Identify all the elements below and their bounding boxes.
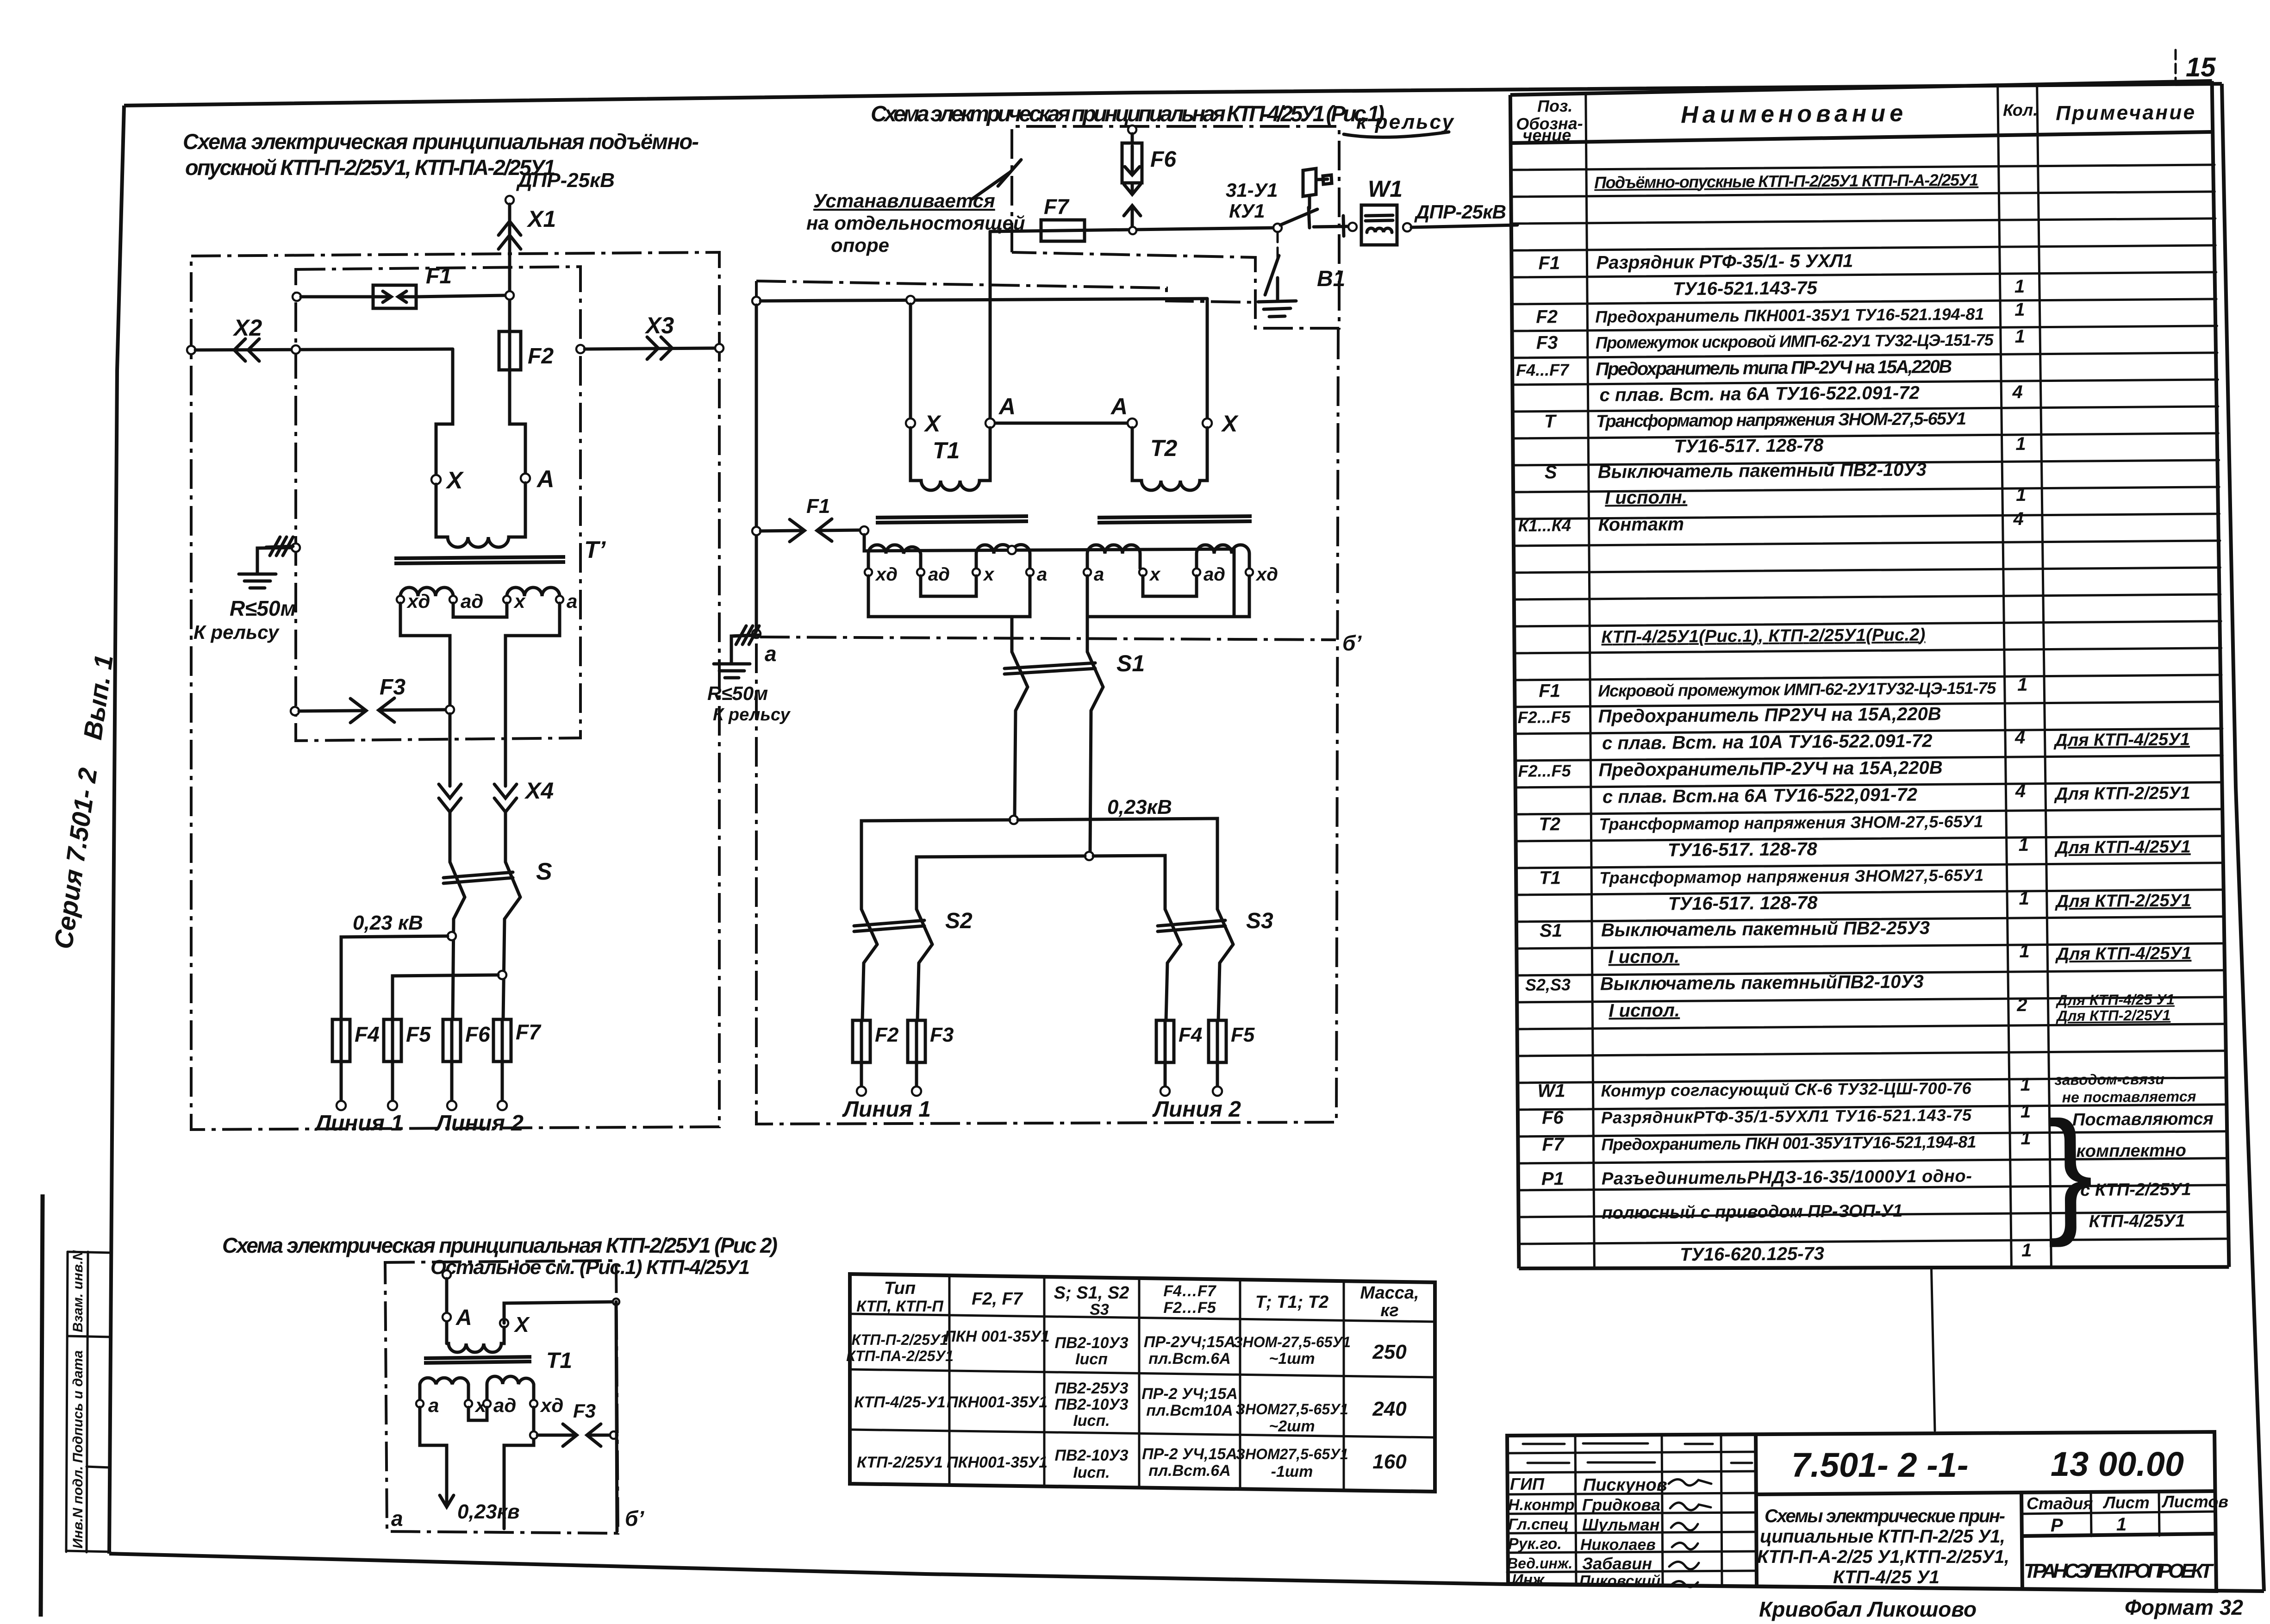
wire tap2 mid [917,856,1085,909]
wire F6 tail [450,1062,454,1100]
svg-text:S2,S3: S2,S3 [1525,975,1571,994]
svg-text:4: 4 [2014,727,2026,748]
svg-text:кг: кг [1380,1301,1399,1320]
stadia header verticals [2091,1493,2091,1536]
svg-text:к рельсу: к рельсу [1356,111,1455,133]
svg-text:Трансформатор напряжения ЗНОМ2: Трансформатор напряжения ЗНОМ27,5-65У1 [1599,866,1983,887]
T2 stair bar and stem [1087,576,1249,617]
svg-text:Схемы электрические прин-: Схемы электрические прин- [1765,1506,2005,1526]
fuse F2 [499,331,521,370]
wire F4 tail [340,1062,343,1100]
LEFTSCH [183,129,723,1136]
svg-text:чение: чение [1522,125,1571,145]
svg-text:Формат 32: Формат 32 [2125,1595,2243,1619]
node A top [443,1270,451,1279]
svg-text:КТП-2/25У1: КТП-2/25У1 [857,1454,943,1471]
node sec а [556,596,563,603]
node F1 right [860,526,868,535]
MIDSCH [707,102,1517,1124]
wire b-side vertical [616,1302,617,1531]
scan edge streak [41,1194,43,1617]
svg-text:1: 1 [2016,485,2027,505]
svg-text:ПР-2УЧ;15А: ПР-2УЧ;15А [1144,1333,1235,1351]
svg-text:Взам. инв.N: Взам. инв.N [70,1250,86,1332]
svg-text:2: 2 [2016,995,2027,1015]
wire X1 vertical [508,204,511,331]
connector X1 chevrons [499,221,521,235]
svg-text:A: A [536,466,555,493]
svg-text:F4…F7: F4…F7 [1163,1282,1216,1300]
wire HV feed down to T1 A [989,231,992,419]
svg-text:7.501- 2 -1-: 7.501- 2 -1- [1791,1446,1969,1484]
svg-text:Т; Т1; Т2: Т; Т1; Т2 [1255,1293,1328,1312]
T1 sec node а [1026,568,1034,576]
mass table row2 bottom [850,1430,1435,1437]
svg-text:КТП-П-А-2/25 У1,КТП-2/25У1,: КТП-П-А-2/25 У1,КТП-2/25У1, [1757,1547,2009,1567]
svg-text:W1: W1 [1368,176,1403,202]
node tap2 [498,971,506,979]
svg-text:КУ1: КУ1 [1229,200,1265,222]
transformer T1 core fig2 [424,1357,531,1358]
svg-text:Т2: Т2 [1150,435,1178,461]
T2 sec node хд [1246,568,1253,576]
MASSTABLE [846,1274,1435,1492]
node W1 right [1403,223,1411,231]
svg-text:Лист: Лист [2102,1493,2150,1512]
svg-text:х: х [1149,564,1161,585]
connector X4 chevron right line [494,784,517,798]
wire F7 tail [501,1062,504,1100]
svg-text:0,23кВ: 0,23кВ [1107,796,1172,818]
ground wire [257,548,292,573]
svg-text:X1: X1 [526,206,556,232]
svg-text:ПР-2 УЧ,15А: ПР-2 УЧ,15А [1142,1445,1237,1463]
wire S1 right pole down [1090,687,1103,852]
svg-text:4: 4 [2012,382,2023,402]
parts table outer verticals [1510,95,1519,1268]
fuse F7 [1041,220,1085,241]
svg-text:1: 1 [2014,276,2025,297]
node T1 A fig2 [443,1313,451,1321]
svg-text:КТП-ПА-2/25У1: КТП-ПА-2/25У1 [846,1348,954,1364]
svg-text:РазрядникРТФ-35/1-5УХЛ1 ТУ16-: РазрядникРТФ-35/1-5УХЛ1 ТУ16-521.143-75 [1601,1106,1972,1127]
node W1 left [1348,223,1357,231]
svg-text:S3: S3 [1090,1301,1109,1318]
svg-text:ад: ад [1204,564,1225,585]
node sec ад [449,596,457,603]
transformer T1 primary fig2 [447,1327,504,1352]
mass table frame [850,1274,1435,1492]
node sec х [503,596,511,603]
node X1 top [505,196,514,204]
enclosure box inner (dash-dot) [296,267,580,741]
ground symbol [239,574,276,588]
svg-text:Стадия: Стадия [2027,1494,2093,1513]
svg-text:Трансформатор напряжения ЗНОМ-: Трансформатор напряжения ЗНОМ-27,5-65У1 [1599,812,1983,834]
T1 secondary coil right [976,545,1030,569]
earth wire [731,635,753,663]
svg-text:ПКН 001-35У1: ПКН 001-35У1 [944,1328,1049,1345]
transformer T primary winding [436,483,525,547]
svg-text:Пискунов: Пискунов [1583,1475,1667,1495]
margin stamp cell lines [68,1252,111,1253]
svg-text:Предохранитель ПКН001-35У1 ТУ1: Предохранитель ПКН001-35У1 ТУ16-521.194-… [1595,305,1984,326]
PARTSTABLE [1510,81,2230,1434]
svg-text:с плав. Вст. на 10А ТУ16-522.0: с плав. Вст. на 10А ТУ16-522.091-72 [1602,731,1933,753]
svg-text:F7: F7 [516,1020,542,1044]
switch S1 bar [1004,663,1095,668]
svg-text:КТП-П-2/25У1: КТП-П-2/25У1 [852,1331,948,1348]
svg-text:160: 160 [1372,1450,1407,1473]
svg-text:опускной КТП-П-2/25У1, КТП-ПА: опускной КТП-П-2/25У1, КТП-ПА-2/25У1 [185,155,555,180]
parts table row rules [1511,165,2228,1244]
parts table bottom edge [1519,1263,2229,1272]
svg-text:х: х [983,564,995,585]
svg-text:Выключатель пакетный ПВ2-10У: Выключатель пакетный ПВ2-10У3 [1598,459,1927,482]
wire to W1 contact [1314,216,1348,236]
svg-text:хд: хд [540,1394,563,1416]
svg-text:1: 1 [2019,941,2030,962]
svg-text:бʼ: бʼ [1342,631,1362,655]
wire bus right riser [1233,549,1236,617]
wire return riser [755,305,758,634]
svg-text:Р: Р [2051,1515,2063,1536]
switch S1 blades [1012,652,1028,687]
wire X3 line [585,348,715,349]
wire S left pole down [453,897,465,1019]
svg-text:К1...К4: К1...К4 [1518,516,1571,535]
svg-text:R≤50м: R≤50м [707,682,768,704]
node F6 top [1128,125,1136,134]
node F3 right [446,706,454,714]
svg-text:I испол.: I испол. [1608,946,1679,967]
wire tap2 to F5 [393,975,498,1019]
svg-text:Для КТП-2/25У1: Для КТП-2/25У1 [2054,783,2190,804]
title block verticals left part [1575,1435,1576,1584]
svg-text:Разрядник РТФ-35/1- 5 УХЛ1: Разрядник РТФ-35/1- 5 УХЛ1 [1596,251,1853,273]
svg-text:1: 1 [2019,888,2029,909]
svg-text:Т1: Т1 [546,1349,572,1373]
stadia bottom line [2021,1534,2215,1536]
earth bars [714,664,750,678]
wire left stem below F3 [449,714,452,786]
svg-text:Николаев: Николаев [1580,1536,1656,1554]
svg-text:F4: F4 [1179,1024,1202,1046]
svg-text:ТУ16-620.125-73: ТУ16-620.125-73 [1680,1243,1824,1265]
svg-text:Iисп: Iисп [1075,1350,1108,1368]
spark gap F3 [299,711,365,711]
wire X2 line [195,349,453,350]
T2 secondary coil right [1197,545,1249,568]
svg-text:ДПР-25кВ: ДПР-25кВ [1414,201,1506,223]
wire T primary left lead [436,349,453,475]
node T1 X [906,418,915,428]
svg-text:Tʼ: Tʼ [584,537,606,563]
svg-text:опоре: опоре [831,234,889,256]
node X lead corner [613,1299,619,1305]
svg-text:13 00.00: 13 00.00 [2051,1445,2184,1483]
svg-text:Рук.го.: Рук.го. [1508,1535,1562,1553]
svg-text:ТУ16-517. 128-78: ТУ16-517. 128-78 [1668,839,1818,860]
node F1 left [752,527,761,535]
switch S bar [443,872,513,878]
svg-text:S1: S1 [1540,920,1562,941]
T2 mid bridge [1143,576,1197,596]
ground node on inner box [292,543,300,552]
svg-text:Т1: Т1 [933,437,960,463]
svg-text:с КТП-2/25У1: с КТП-2/25У1 [2080,1180,2191,1200]
svg-text:F4...F7: F4...F7 [1516,360,1570,380]
sheet top border [124,84,2222,106]
wire HV return bus [761,299,1207,301]
svg-text:Для КТП-2/25У1: Для КТП-2/25У1 [2054,891,2191,911]
svg-text:К рельсу: К рельсу [193,621,280,643]
svg-text:Контур согласующий СК-6 ТУ32-Ц: Контур согласующий СК-6 ТУ32-ЦШ-700-76 [1601,1079,1971,1100]
svg-text:пл.Вст.6А: пл.Вст.6А [1148,1350,1231,1368]
svg-text:Подпись и дата: Подпись и дата [70,1350,86,1463]
svg-text:ГИП: ГИП [1510,1474,1545,1493]
mid bridge fig2 [468,1407,487,1420]
terminal Линия1 a [337,1101,346,1110]
svg-text:Подъёмно-опускные КТП-П-2/25У1: Подъёмно-опускные КТП-П-2/25У1 КТП-П-А-2… [1594,170,1978,192]
svg-text:ад: ад [493,1394,516,1416]
svg-text:ад: ад [928,564,950,585]
svg-text:а: а [765,642,777,666]
svg-text:Гридкова: Гридкова [1582,1495,1660,1514]
sec node хв fig2 [530,1400,537,1407]
T2 sec node а [1084,568,1091,576]
mass table row1 bottom [850,1369,1435,1377]
title block outer [1507,1432,2216,1591]
wire S right pole down [503,897,520,1019]
svg-text:S2: S2 [945,909,973,933]
note leader [972,160,1021,199]
sheet left border [109,106,124,1554]
svg-text:хд: хд [406,590,430,612]
transformer T1 primary [910,428,990,490]
switch S2 blades [861,909,877,944]
svg-text:1: 1 [2017,675,2028,695]
switch S3 bar [1158,920,1225,926]
page number 15 box [2175,50,2177,84]
svg-text:с плав. Вст.на 6А ТУ16-522,0: с плав. Вст.на 6А ТУ16-522,091-72 [1603,785,1917,807]
title block doc cell divider [2021,1493,2022,1590]
svg-text:с плав. Вст. на 6А ТУ16-522.0: с плав. Вст. на 6А ТУ16-522.091-72 [1599,383,1920,406]
svg-text:Контакт: Контакт [1598,514,1684,535]
svg-text:Искровой промежуток ИМП-62-2У1: Искровой промежуток ИМП-62-2У1ТУ32-ЦЭ-15… [1598,678,1996,700]
svg-text:F2...F5: F2...F5 [1518,761,1571,781]
wire F1 left lead [301,295,373,299]
svg-text:Предохранитель типа ПР-2УЧ на: Предохранитель типа ПР-2УЧ на 15А,220В [1596,356,1952,380]
enclosure box outer (dash-dot) [191,252,719,1130]
svg-text:X3: X3 [644,312,674,338]
svg-text:Т: Т [1544,411,1557,431]
transformer T2 primary [1132,428,1207,490]
svg-text:F3: F3 [573,1400,596,1422]
svg-text:Т2: Т2 [1539,814,1560,834]
svg-text:К рельсу: К рельсу [713,705,791,725]
svg-text:хд: хд [875,564,898,585]
transformer T secondary right coil [507,587,560,596]
svg-text:F6: F6 [1150,147,1176,172]
node tap1 mid [1010,816,1018,824]
svg-text:F1: F1 [1539,681,1560,701]
svg-text:КТП, КТП-П: КТП, КТП-П [856,1298,944,1315]
svg-text:Т1: Т1 [1539,868,1561,888]
svg-text:Для КТП-4/25 У1: Для КТП-4/25 У1 [2055,991,2175,1009]
fuse F3 mid [908,1020,925,1062]
svg-text:Предохранитель ПР2УЧ на 15А,22: Предохранитель ПР2УЧ на 15А,220В [1598,704,1941,726]
parts table top edge [1510,81,2212,95]
svg-text:Для КТП-4/25У1: Для КТП-4/25У1 [2055,943,2191,964]
svg-text:ПКН001-35У1: ПКН001-35У1 [947,1393,1048,1411]
fuse F4 mid [1156,1020,1174,1062]
margin stamp column lines [66,1252,68,1552]
svg-text:КТП-4/25У1: КТП-4/25У1 [2089,1211,2185,1231]
svg-text:F3: F3 [1536,332,1558,353]
svg-text:Примечание: Примечание [2056,101,2195,125]
terminals mid [857,1087,866,1096]
svg-text:ТУ16-521.143-75: ТУ16-521.143-75 [1673,278,1818,299]
title block big cell bottom [1756,1491,2215,1494]
svg-text:F5: F5 [406,1022,431,1046]
svg-text:Р1: Р1 [1541,1168,1564,1189]
svg-text:Iисп.: Iисп. [1073,1464,1110,1481]
sheet bottom border [109,1554,2264,1591]
T1 sec node ад [917,568,924,576]
svg-text:1: 1 [2021,1101,2031,1122]
svg-text:ПВ2-10У3: ПВ2-10У3 [1055,1447,1129,1464]
parts table header bottom [1510,132,2213,143]
svg-text:X: X [1221,411,1239,437]
svg-text:W1: W1 [1537,1081,1565,1101]
svg-text:F3: F3 [930,1024,954,1046]
connector X4 chevron left line [439,784,461,798]
T1 sec node х [973,568,980,576]
wire A lead [445,1279,449,1343]
svg-text:Н.контр: Н.контр [1508,1496,1575,1514]
svg-text:Остальное см. (Рис.1) КТП-4/2: Остальное см. (Рис.1) КТП-4/25У1 [430,1256,750,1279]
fuse F7 [493,1019,511,1062]
svg-text:Линия 2: Линия 2 [435,1111,524,1136]
arrester F6 gap arrow up [1131,209,1134,229]
svg-text:Инв.N подл.: Инв.N подл. [70,1466,86,1549]
node F3 right fig2 [610,1431,617,1439]
earth node а [752,630,761,638]
sheet right border [2222,84,2264,1591]
T1 secondary coil right fig2 [487,1376,534,1400]
node F3 tap fig2 [530,1431,537,1439]
node T primary A [521,474,530,483]
svg-text:F2: F2 [875,1024,899,1046]
svg-text:пл.Вст.6А: пл.Вст.6А [1148,1462,1231,1480]
svg-text:F6: F6 [465,1022,490,1046]
svg-text:ТРАНСЭЛЕКТРОПРОЕКТ: ТРАНСЭЛЕКТРОПРОЕКТ [2024,1560,2214,1582]
fuse F5 [384,1019,401,1062]
switch S3 blades [1165,909,1181,944]
fuse F2 mid [853,1020,870,1062]
left rows lines [1507,1452,1756,1572]
matching unit W1 [1361,205,1397,245]
svg-text:X: X [445,467,464,494]
svg-text:Iисп.: Iисп. [1073,1412,1110,1430]
node F6 bottom junction [1129,227,1136,234]
svg-text:F2…F5: F2…F5 [1163,1299,1216,1317]
wire to ДПР-25кВ [1411,225,1517,227]
wire T1 X riser [909,304,912,419]
wire X lead fig2 [504,1302,616,1323]
svg-text:0,23кв: 0,23кв [457,1500,520,1523]
node F1 right on X1 [505,291,514,300]
svg-text:Масса,: Масса, [1360,1283,1419,1303]
main box (dash-dot) [756,281,1254,302]
ground rail mark slashes [266,537,293,556]
svg-text:ТУ16-517. 128-78: ТУ16-517. 128-78 [1674,435,1824,456]
svg-text:R≤50м: R≤50м [230,596,296,620]
top narrow row dashes [1523,1443,1752,1463]
svg-text:A: A [1110,394,1128,419]
svg-text:X2: X2 [232,315,262,341]
svg-text:A: A [998,394,1016,419]
svg-text:1: 1 [2021,1128,2031,1149]
spark gap F1 box [373,285,416,308]
svg-text:4: 4 [2015,781,2026,801]
node T primary X [431,475,441,484]
svg-text:ДПР-25кВ: ДПР-25кВ [516,169,615,192]
svg-text:F2: F2 [528,344,554,369]
node sec хд [397,596,404,603]
mass table verticals [948,1275,951,1485]
svg-text:Кривобал Ликошово: Кривобал Ликошово [1759,1597,1977,1621]
svg-text:бʼ: бʼ [625,1506,644,1530]
wire tap1 mid [861,820,1010,909]
svg-text:Вед.инж.: Вед.инж. [1507,1555,1572,1572]
svg-text:Выключатель пакетныйПВ2-10У3: Выключатель пакетныйПВ2-10У3 [1600,972,1924,994]
spark gap F1 mid [761,531,803,531]
wire F1 to LV bus [864,535,1234,551]
svg-text:ЗНОМ27,5-65У1: ЗНОМ27,5-65У1 [1235,1401,1348,1418]
mass table header bottom [850,1314,1435,1322]
fuse F5 mid [1209,1020,1226,1062]
svg-text:Пиковский: Пиковский [1579,1572,1660,1589]
node T1 A [985,418,995,428]
svg-text:ЗНОМ-27,5-65У1: ЗНОМ-27,5-65У1 [1233,1334,1351,1350]
terminal Линия2 a [447,1101,456,1110]
sec node а fig2 [416,1400,424,1407]
wire F5 tail [391,1062,394,1100]
FIG2 [222,1233,778,1533]
svg-text:S1: S1 [1116,650,1145,676]
svg-text:F2, F7: F2, F7 [972,1289,1023,1309]
svg-text:заводом-связи: заводом-связи [2054,1071,2164,1088]
svg-text:1: 1 [2021,1240,2032,1261]
wire secondary mid bridge [453,603,507,617]
svg-text:Линия 1: Линия 1 [314,1111,403,1136]
svg-text:-1шт: -1шт [1271,1463,1313,1480]
stair right fig2 [504,1407,534,1529]
svg-text:ПР-2 УЧ;15А: ПР-2 УЧ;15А [1141,1385,1238,1403]
switch S blades [450,862,465,897]
transformer T secondary left coil [400,587,453,596]
wire secondary right leg and bar [505,603,560,786]
svg-text:1: 1 [2015,434,2026,454]
svg-text:Предохранитель ПКН 001-35У1ТУ1: Предохранитель ПКН 001-35У1ТУ16-521,194-… [1601,1132,1976,1154]
svg-text:а: а [1037,564,1047,585]
node tap1 [448,932,456,940]
svg-text:S: S [536,858,552,885]
disconnector КУ1 pivot [1273,224,1282,232]
svg-text:ПредохранительПР-2УЧ на 15А,22: ПредохранительПР-2УЧ на 15А,220В [1598,757,1943,780]
